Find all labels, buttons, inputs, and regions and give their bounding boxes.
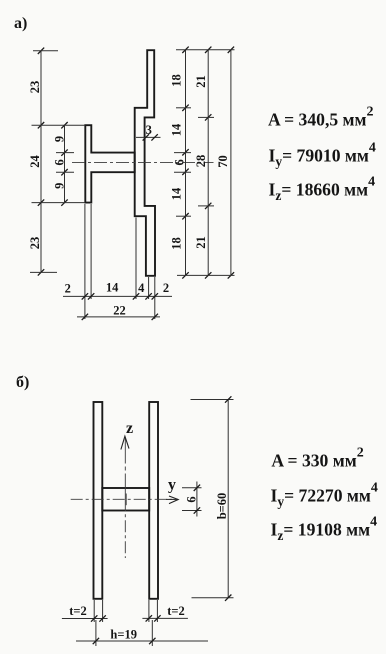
right extension lines	[176, 49, 235, 51]
svg-text:A = 340,5 мм2: A = 340,5 мм2	[268, 105, 374, 130]
t=2 right extensions	[148, 600, 150, 622]
svg-text:b=60: b=60	[215, 493, 229, 520]
svg-text:6: 6	[52, 159, 66, 165]
y axis arrow	[169, 496, 178, 504]
svg-text:Iy= 79010 мм4: Iy= 79010 мм4	[269, 141, 376, 170]
right chain 1 line	[185, 50, 187, 276]
right strip (figure b)	[149, 402, 158, 599]
svg-text:22: 22	[113, 304, 126, 318]
svg-text:h=19: h=19	[110, 628, 137, 642]
svg-text:14: 14	[170, 187, 184, 200]
left strip (figure b)	[94, 402, 103, 599]
dim b=60 line	[227, 400, 229, 598]
centerline (figure a)	[72, 161, 214, 163]
left inner chain line	[64, 125, 66, 202]
svg-text:23: 23	[28, 81, 42, 94]
svg-text:9: 9	[52, 136, 66, 142]
left extension lines	[32, 124, 86, 126]
svg-text:2: 2	[163, 281, 169, 295]
dim 6 extensions (figure b)	[182, 487, 202, 489]
z axis line	[124, 438, 126, 500]
svg-text:t=2: t=2	[69, 604, 87, 618]
svg-text:z: z	[126, 420, 133, 437]
svg-text:t=2: t=2	[167, 604, 185, 618]
dim 6 line	[196, 482, 198, 517]
h=19 dim line	[76, 640, 208, 642]
svg-text:28: 28	[194, 155, 208, 168]
left outer chain line	[40, 51, 42, 273]
svg-text:23: 23	[28, 237, 42, 250]
t=2 right dim line	[142, 617, 188, 619]
right chain 3 line	[230, 50, 232, 276]
svg-text:21: 21	[194, 75, 208, 88]
svg-text:6: 6	[185, 496, 199, 502]
svg-text:4: 4	[138, 281, 145, 295]
bottom dim line 1	[63, 295, 172, 297]
svg-text:а): а)	[14, 15, 27, 32]
svg-text:18: 18	[170, 237, 184, 250]
svg-text:Iz= 19108 мм4: Iz= 19108 мм4	[271, 514, 378, 543]
horizontal centerline (figure b)	[71, 498, 172, 500]
svg-text:6: 6	[172, 159, 186, 165]
dimension 3 line	[136, 136, 161, 138]
svg-text:9: 9	[52, 183, 66, 189]
svg-text:21: 21	[194, 236, 208, 249]
h=19 extensions	[95, 620, 97, 646]
center cross	[125, 494, 127, 506]
t=2 left dim line	[62, 618, 108, 620]
svg-text:A = 330 мм2: A = 330 мм2	[271, 446, 363, 471]
svg-text:y: y	[168, 477, 176, 494]
svg-text:18: 18	[170, 74, 184, 87]
bottom extension lines (figure a)	[84, 204, 86, 319]
vertical centerline below center (figure b)	[124, 499, 126, 558]
svg-text:14: 14	[106, 281, 119, 295]
Z-section outline (figure a)	[135, 50, 155, 276]
T-section outline (figure a)	[85, 125, 134, 202]
left outer chain extensions	[33, 50, 58, 52]
svg-text:б): б)	[16, 374, 29, 391]
svg-text:14: 14	[170, 123, 184, 136]
svg-text:24: 24	[28, 155, 42, 168]
dim b=60 extensions	[191, 399, 234, 401]
z axis arrow	[121, 436, 129, 449]
right chain 2 line	[207, 50, 209, 276]
web (figure b)	[102, 488, 149, 511]
svg-text:Iy= 72270 мм4: Iy= 72270 мм4	[271, 480, 378, 509]
svg-text:Iz= 18660 мм4: Iz= 18660 мм4	[269, 175, 376, 204]
svg-text:2: 2	[65, 282, 71, 296]
bottom dim line 2	[77, 316, 160, 318]
t=2 left extensions	[93, 600, 95, 622]
svg-text:70: 70	[216, 155, 230, 168]
